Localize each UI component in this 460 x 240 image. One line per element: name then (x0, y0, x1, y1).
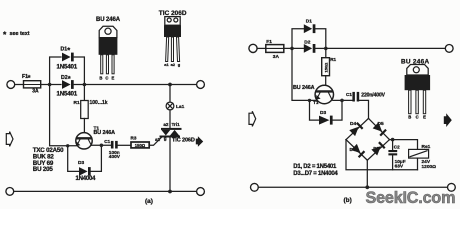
wire lamp to triac (169, 110, 171, 128)
terminal: (b) top-right (445, 45, 453, 53)
svg-text:D4: D4 (350, 121, 356, 127)
svg-text:C2: C2 (394, 145, 400, 150)
svg-text:*: * (67, 46, 70, 55)
diode D6 (351, 144, 365, 158)
node: junction (b) fuse/left rail (290, 47, 294, 51)
wire D3 loop right leg (90, 145, 101, 171)
wire lamp branch upper (169, 85, 171, 103)
svg-text:TIC 206D: TIC 206D (172, 138, 195, 144)
svg-text:1200Ω: 1200Ω (422, 164, 437, 170)
svg-text:D3: D3 (78, 160, 84, 166)
wire D3 loop left leg (68, 146, 79, 172)
terminal: (a) input top-left (7, 81, 15, 89)
svg-text:400V: 400V (109, 154, 121, 160)
package BU246A (b): pin labels B C E (408, 115, 426, 120)
svg-text:3A: 3A (273, 54, 280, 60)
svg-text:B: B (99, 75, 102, 80)
input arrow (b) (249, 111, 256, 126)
wire left rail down + emitter wire (b) (292, 48, 316, 100)
wire fuse to node (41, 84, 61, 86)
wire main to lamp junction and terminal (84, 84, 197, 86)
wire C1 to bridge top (359, 100, 368, 118)
svg-text:BU 246A: BU 246A (96, 17, 121, 23)
resistor R1 (b) (322, 58, 330, 76)
wire terminal to fuse (257, 47, 266, 49)
package BU246A (a): body (99, 38, 118, 55)
capacitor C2 (388, 150, 397, 155)
wire R1 to T1 base (83, 119, 85, 138)
svg-text:BU 205: BU 205 (33, 166, 54, 173)
wire C2 top (392, 140, 394, 150)
package BU246A (b): body (405, 75, 431, 90)
node: junction C2 tap (391, 138, 395, 142)
wire C2 bottom (392, 155, 394, 169)
resistor R1 (81, 101, 89, 119)
terminal: (b) bottom-left (251, 183, 259, 191)
diode D3 (79, 167, 91, 176)
svg-text:D1, D2 = 1N5401: D1, D2 = 1N5401 (293, 164, 337, 170)
wire junction down to R1 (83, 85, 85, 101)
svg-text:R1: R1 (74, 100, 80, 106)
svg-text:C1: C1 (104, 139, 110, 144)
package TIC206D: tab (165, 17, 180, 26)
svg-text:a2: a2 (163, 122, 169, 127)
svg-text:a1: a1 (155, 137, 161, 142)
svg-text:D3...D7 = 1N4004: D3...D7 = 1N4004 (293, 171, 338, 177)
svg-text:*: * (3, 29, 7, 39)
svg-text:C: C (416, 115, 419, 120)
fuse F1 (b) (266, 45, 284, 53)
triac Tri1 (160, 128, 182, 138)
package BU246A (a): pin labels B C E (99, 75, 114, 80)
input arrow (a) (6, 132, 13, 147)
node: junction collector/C1/D3 (b) (340, 99, 344, 103)
wire D2 to junction (74, 84, 84, 86)
wire bottom rail (14, 190, 197, 192)
wire bridge left node down to minus rail (346, 140, 418, 170)
wire bridge right node to relay corner (390, 140, 418, 150)
package TIC206D: pin labels a1 a2 g (164, 62, 181, 67)
package BU246A (b): legs (409, 90, 426, 114)
transistor T1 (76, 133, 92, 149)
svg-text:D7: D7 (373, 146, 379, 152)
wire fuse to junction (284, 47, 304, 49)
svg-text:3A: 3A (32, 89, 39, 95)
svg-text:R1: R1 (330, 57, 336, 62)
wire D3 loop left leg (b) (310, 100, 319, 120)
diode D2 (b) (304, 44, 316, 53)
package TIC206D: legs (166, 37, 180, 62)
svg-text:(a): (a) (145, 198, 153, 205)
wire left rail up to D1 branch (50, 57, 61, 85)
capacitor C1 (111, 141, 118, 149)
svg-text:150Ω: 150Ω (324, 62, 329, 73)
wire main (b) to terminal (326, 47, 446, 49)
svg-text:BU 246A: BU 246A (94, 130, 116, 136)
diode D2 (62, 80, 74, 89)
svg-text:R3: R3 (131, 136, 137, 141)
svg-text:E: E (423, 115, 426, 120)
package TIC206D: body (164, 25, 181, 37)
svg-text:Tri1: Tri1 (172, 122, 181, 127)
svg-text:150Ω: 150Ω (135, 143, 146, 148)
diode D5 (373, 122, 387, 136)
node: junction (b) D1/R1 (324, 47, 328, 51)
node: junction emitter / D3 loop (66, 144, 69, 147)
svg-text:1N5401: 1N5401 (57, 90, 78, 97)
wire C1 to R3 (118, 144, 131, 146)
svg-text:C: C (105, 75, 108, 80)
svg-text:g: g (178, 62, 181, 67)
svg-text:a1: a1 (164, 62, 169, 67)
diode D4 (349, 122, 363, 136)
note: see-text legend (3, 29, 30, 39)
capacitor C1 (b) (352, 92, 359, 102)
svg-text:D3: D3 (320, 110, 326, 116)
svg-text:*: * (28, 73, 31, 82)
terminal: (a) output top-right (197, 81, 205, 89)
wire D2 to junction (b) (315, 47, 326, 49)
wire D1 to right rail (b) (315, 29, 326, 49)
svg-text:SeekIC.com: SeekIC.com (366, 189, 456, 207)
node: junction bridge bottom/bottom rail (365, 185, 369, 189)
svg-text:63V: 63V (395, 164, 404, 170)
svg-text:BU 246A: BU 246A (293, 85, 315, 91)
terminal: (b) bottom-right (448, 183, 456, 191)
svg-text:(b): (b) (344, 197, 352, 204)
svg-text:B: B (408, 115, 411, 120)
wire terminal to fuse F1 (15, 84, 24, 86)
svg-text:1N4004: 1N4004 (76, 176, 97, 182)
diode D1 (b) (304, 24, 316, 33)
svg-text:see text: see text (10, 31, 30, 37)
svg-text:E: E (112, 75, 115, 80)
terminal: (a) bottom-left (6, 188, 14, 196)
wire collector to C1 (92, 144, 112, 146)
diode D1 (62, 53, 74, 62)
bridge arm wires (346, 118, 390, 160)
node: junction triac/bottom rail (168, 190, 172, 194)
svg-text:La1: La1 (176, 104, 185, 110)
svg-text:D2: D2 (304, 39, 310, 45)
wire R1 to T1 base (b) (325, 76, 327, 91)
wire relay bottom (417, 158, 419, 170)
svg-text:Re1: Re1 (422, 144, 431, 150)
wire D1 to right rail (74, 57, 84, 85)
svg-text:a2: a2 (171, 62, 176, 67)
node: junction collector/C1/D3 (100, 144, 104, 148)
node: junction fuse/left rail (48, 83, 52, 87)
relay Re1 (409, 149, 429, 158)
svg-text:D1: D1 (306, 19, 312, 25)
output arrow (a) (196, 136, 203, 146)
wire junction to R1 (b) (325, 48, 327, 57)
svg-text:100...1k: 100...1k (90, 100, 108, 106)
wire D3 loop right leg (b) (332, 100, 342, 120)
diode D7 (371, 141, 385, 155)
svg-text:F1: F1 (266, 39, 272, 45)
svg-text:C1: C1 (346, 92, 352, 97)
wire left rail up to D1 branch (b) (292, 29, 303, 49)
wire bridge bottom node to bottom rail (366, 160, 368, 187)
node: junction lamp branch (168, 83, 172, 87)
transistor T1 (b) (315, 85, 333, 103)
lamp La1 (166, 102, 174, 110)
wire collector to C1 (b) (333, 99, 353, 101)
package BU246A (a): legs (101, 55, 114, 74)
terminal: (b) input top-left (249, 44, 257, 52)
diode D3 (b) (319, 116, 333, 125)
terminal: (a) bottom-right (197, 188, 205, 196)
wire left rail down + emitter wire (50, 85, 77, 146)
package BU246A (a): tab (99, 26, 117, 37)
package BU246A (b): tab (407, 65, 428, 76)
svg-text:1N5401: 1N5401 (57, 63, 78, 70)
svg-text:D6: D6 (350, 147, 356, 153)
wire triac to bottom rail (169, 138, 171, 192)
wire R3 to triac gate (149, 137, 161, 145)
fuse F1 (24, 81, 41, 88)
svg-text:220n/400V: 220n/400V (361, 92, 385, 98)
output arrow (b) (444, 113, 452, 127)
svg-text:*: * (68, 74, 71, 83)
wire bottom rail (b) (258, 186, 447, 188)
node: junction emitter/D3 loop (b) (308, 99, 311, 102)
svg-text:D5: D5 (378, 121, 384, 127)
node: junction D1/D2/R1 (83, 83, 87, 87)
resistor R3 (150R) (131, 142, 149, 148)
